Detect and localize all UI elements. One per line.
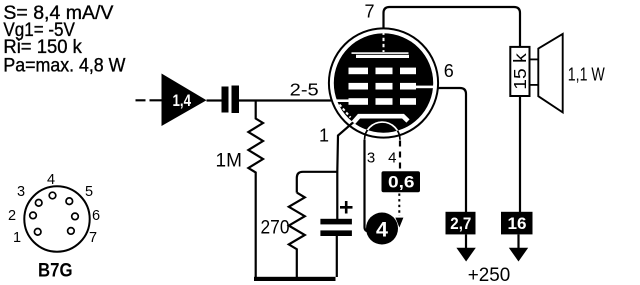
svg-text:6: 6 (92, 208, 100, 224)
svg-text:0,6: 0,6 (388, 173, 415, 192)
svg-text:3: 3 (17, 184, 25, 200)
speaker connector lines (530, 58, 539, 60)
anode line (352, 52, 409, 54)
grid dashes row 1 (349, 68, 369, 75)
tube electrode disc (334, 33, 433, 132)
heater pin4 wire (399, 141, 401, 172)
socket pin 2 (30, 212, 37, 219)
wire capacitor to ground bus (336, 236, 338, 277)
svg-text:1: 1 (13, 230, 21, 246)
anode current box 16 (501, 212, 533, 235)
grid stub to rim right (6) (416, 86, 434, 89)
heater dome black part (365, 122, 401, 140)
output transformer primary 15k (510, 47, 529, 96)
electrolytic capacitor plates (320, 219, 352, 225)
stem and arrow below 16 (517, 234, 519, 249)
svg-text:4: 4 (47, 172, 55, 188)
svg-text:6: 6 (444, 61, 454, 81)
wire branch to cathode resistor (297, 172, 338, 193)
anode lead dashed (pin 7) (383, 32, 385, 53)
arrowhead into heater circle (395, 218, 403, 228)
svg-text:7: 7 (365, 1, 375, 21)
cathode lead dashed inside (340, 105, 351, 118)
heater current box 0,6 (382, 171, 421, 192)
svg-text:3: 3 (367, 149, 375, 166)
socket pin 5 (66, 198, 73, 205)
svg-text:4: 4 (376, 218, 388, 242)
tube envelope outer circle (329, 28, 438, 137)
socket pin 3 (35, 200, 42, 207)
input level triangle 1,4 (162, 74, 207, 127)
wire 15k down to 16 (519, 96, 521, 212)
svg-text:1,4: 1,4 (173, 91, 192, 110)
svg-text:7: 7 (89, 230, 97, 246)
grid dashes row 2 (349, 83, 369, 90)
svg-text:15 k: 15 k (510, 53, 530, 90)
plus sign of electrolytic (340, 201, 353, 214)
svg-text:2: 2 (8, 208, 16, 224)
cathode bracket (350, 116, 409, 127)
heater dome white part (365, 122, 401, 140)
cathode resistor 270 (289, 193, 305, 277)
tube data text block (3, 3, 125, 77)
cathode node wire: pin1 down (337, 120, 356, 220)
anode top wire pin7 to transformer (384, 7, 521, 47)
svg-text:5: 5 (85, 184, 93, 200)
screen current box 2,7 (446, 212, 476, 235)
svg-text:2-5: 2-5 (290, 80, 319, 100)
grid stub to rim left (2-5) (334, 99, 350, 102)
stem and arrow below 2,7 (465, 234, 467, 249)
wire triangle to capacitor (207, 99, 223, 101)
socket pin 6 (72, 213, 79, 220)
coupling capacitor (222, 87, 229, 113)
svg-text:1: 1 (319, 125, 329, 145)
svg-text:270: 270 (261, 218, 290, 239)
heater voltage circle 4 (366, 213, 398, 245)
socket pin 4 (49, 192, 56, 199)
socket pin 1 (34, 229, 41, 236)
screen wire pin6 to 2,7 box (438, 88, 467, 212)
ground bus (254, 277, 336, 281)
input wire (136, 99, 163, 101)
svg-text:1,1 W: 1,1 W (568, 64, 605, 84)
svg-text:4: 4 (388, 149, 396, 166)
socket pin labels (8, 172, 100, 246)
svg-text:B7G: B7G (38, 259, 73, 281)
grid dashes row 3 (349, 98, 369, 105)
dashed heater wire below box (398, 194, 400, 217)
svg-text:+250: +250 (468, 264, 511, 285)
socket pin 7 (68, 228, 75, 235)
svg-text:Pa=max. 4,8 W: Pa=max. 4,8 W (3, 55, 125, 76)
speaker cone (538, 34, 562, 113)
svg-text:2,7: 2,7 (450, 214, 471, 233)
B7G socket outline (24, 186, 89, 251)
grid resistor 1M (248, 101, 263, 278)
svg-text:16: 16 (508, 214, 527, 233)
wire capacitor to tube grid (239, 99, 331, 101)
svg-text:1M: 1M (216, 151, 242, 172)
heater pin3 wire to circle 4 (365, 140, 375, 232)
